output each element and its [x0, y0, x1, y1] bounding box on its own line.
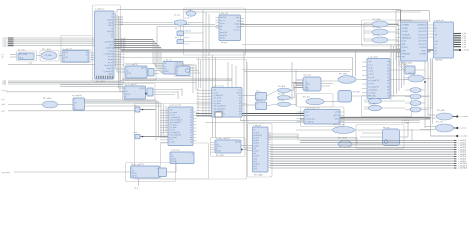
svg-text:u_bit_cnt: u_bit_cnt: [164, 59, 172, 62]
svg-text:oa: oa: [387, 93, 389, 95]
svg-text:r_state[2:0]: r_state[2:0]: [368, 88, 378, 91]
svg-text:i_d1: i_d1: [0, 111, 4, 113]
svg-text:s3: s3: [197, 98, 199, 100]
svg-text:u_uart_tx_inst: u_uart_tx_inst: [212, 84, 224, 87]
svg-text:o_d6: o_d6: [462, 46, 466, 48]
svg-text:u_clk_wiz_0: u_clk_wiz_0: [401, 20, 411, 22]
svg-text:Q[7:0]: Q[7:0]: [216, 151, 221, 153]
svg-text:Q[7:0]: Q[7:0]: [235, 142, 240, 144]
svg-text:r_cnt[11:0]: r_cnt[11:0]: [305, 121, 314, 124]
svg-text:RTL_REG: RTL_REG: [216, 155, 224, 157]
svg-text:DI[15:0]: DI[15:0]: [402, 47, 409, 49]
svg-text:o6: o6: [387, 80, 389, 82]
svg-text:tick_reg: tick_reg: [383, 126, 389, 129]
svg-text:pr13: pr13: [254, 165, 257, 168]
svg-text:o_led4[3:0]: o_led4[3:0]: [458, 149, 467, 151]
svg-text:CLKOUT4: CLKOUT4: [418, 41, 426, 43]
svg-text:o_tx_done: o_tx_done: [212, 102, 220, 105]
svg-text:DADDR[6:0]: DADDR[6:0]: [402, 37, 412, 40]
svg-text:i_en: i_en: [0, 99, 4, 101]
svg-text:o2: o2: [387, 67, 389, 69]
svg-text:D1: D1: [435, 47, 437, 49]
svg-text:RTL_ROM: RTL_ROM: [338, 138, 347, 140]
svg-text:Q[7:0]: Q[7:0]: [171, 161, 176, 163]
svg-text:s7: s7: [197, 110, 199, 112]
svg-text:do3: do3: [121, 24, 124, 26]
svg-text:o_tx_serial: o_tx_serial: [212, 99, 221, 102]
svg-text:o_tx_active: o_tx_active: [212, 97, 221, 100]
svg-text:o5: o5: [387, 77, 389, 79]
svg-text:RTL_ROM: RTL_ROM: [19, 54, 28, 56]
svg-text:RTL_EQ: RTL_EQ: [278, 100, 285, 102]
svg-text:i_mosi: i_mosi: [367, 71, 373, 73]
svg-text:tx_sr_reg[7:0]: tx_sr_reg[7:0]: [125, 83, 137, 86]
svg-text:Q[7:0]: Q[7:0]: [140, 88, 145, 90]
svg-text:RTL_AND: RTL_AND: [373, 26, 381, 29]
svg-text:o_led5[3:0]: o_led5[3:0]: [458, 152, 467, 154]
svg-text:RTL_OR: RTL_OR: [436, 122, 443, 124]
svg-text:i_tx_dv: i_tx_dv: [367, 82, 373, 85]
svg-text:o7: o7: [387, 83, 389, 85]
svg-text:RTL_ADD: RTL_ADD: [43, 97, 52, 100]
svg-text:D[2:0]: D[2:0]: [306, 84, 311, 86]
svg-text:tx_data_reg[7:0]: tx_data_reg[7:0]: [216, 137, 230, 140]
svg-text:d_o[3]: d_o[3]: [121, 44, 126, 46]
svg-text:cnt_reg[3:0]: cnt_reg[3:0]: [72, 94, 82, 97]
svg-text:dout: dout: [236, 16, 240, 19]
svg-text:CLKOUT1: CLKOUT1: [418, 31, 426, 33]
svg-text:u_uart_rx_inst: u_uart_rx_inst: [169, 104, 181, 107]
svg-text:RTL_REG: RTL_REG: [96, 81, 105, 83]
svg-text:d0_rom_i: d0_rom_i: [18, 48, 26, 51]
svg-text:RTL_REG: RTL_REG: [353, 92, 361, 94]
svg-text:state_reg: state_reg: [303, 74, 311, 77]
svg-text:CLKIN2: CLKIN2: [402, 31, 408, 33]
svg-text:dout[15:0]: dout[15:0]: [105, 41, 114, 44]
svg-text:probe7: probe7: [254, 150, 259, 153]
svg-text:s4: s4: [197, 101, 199, 103]
svg-text:o_led8[3:0]: o_led8[3:0]: [458, 159, 467, 161]
svg-text:q1: q1: [123, 51, 125, 53]
svg-text:pr6: pr6: [254, 147, 257, 150]
svg-text:a[7:0]: a[7:0]: [108, 22, 113, 24]
svg-text:probe4: probe4: [254, 142, 259, 145]
svg-text:rd_en: rd_en: [220, 23, 225, 25]
svg-text:D[7:0]: D[7:0]: [125, 94, 130, 96]
svg-text:q4: q4: [123, 59, 125, 61]
svg-text:q6: q6: [239, 114, 241, 116]
svg-text:q[3:0]: q[3:0]: [164, 71, 169, 73]
svg-text:empty: empty: [108, 73, 113, 76]
svg-text:CLKFBIN: CLKFBIN: [402, 25, 410, 27]
svg-text:o_locked: o_locked: [462, 50, 469, 52]
svg-text:PWRDWN: PWRDWN: [402, 54, 411, 56]
svg-text:r_bit_index[2:0]: r_bit_index[2:0]: [212, 107, 225, 110]
svg-text:r_cnt[2:0]: r_cnt[2:0]: [368, 92, 376, 95]
svg-text:o_led10[3:0]: o_led10[3:0]: [458, 163, 468, 165]
svg-text:S0: S0: [435, 50, 437, 52]
svg-text:mem_reg_rom: mem_reg_rom: [333, 124, 345, 126]
svg-text:I0: I0: [111, 14, 113, 16]
svg-text:din[7:0]: din[7:0]: [107, 68, 114, 70]
svg-text:CLKOUT3: CLKOUT3: [418, 38, 426, 40]
svg-text:RTL_INV: RTL_INV: [185, 10, 193, 12]
svg-text:inv_o: inv_o: [134, 188, 138, 190]
svg-text:pr8: pr8: [254, 152, 257, 155]
svg-text:b[7:0]: b[7:0]: [108, 25, 113, 27]
svg-text:DO[15:0]: DO[15:0]: [419, 47, 427, 49]
svg-text:o_rx_byte[7:0]: o_rx_byte[7:0]: [368, 79, 380, 82]
svg-text:o_led11[3:0]: o_led11[3:0]: [458, 165, 468, 167]
svg-text:probe2: probe2: [254, 137, 259, 140]
svg-text:rx_sr_reg[7:0]: rx_sr_reg[7:0]: [126, 63, 138, 66]
svg-text:o_led2[3:0]: o_led2[3:0]: [458, 145, 467, 147]
svg-text:i_spi_miso: i_spi_miso: [0, 172, 10, 174]
svg-text:o_rx_dv: o_rx_dv: [368, 76, 374, 79]
svg-text:ce: ce: [111, 28, 113, 30]
svg-text:spi_in_reg[7:0]: spi_in_reg[7:0]: [131, 163, 144, 166]
svg-text:o9: o9: [387, 89, 389, 91]
svg-text:d_o[4]: d_o[4]: [121, 46, 126, 48]
svg-text:probe0: probe0: [254, 131, 259, 134]
svg-text:mux_i: mux_i: [256, 91, 261, 93]
svg-text:probe5: probe5: [254, 144, 259, 147]
svg-text:clk: clk: [111, 34, 113, 36]
svg-text:LOCKED: LOCKED: [419, 54, 427, 56]
svg-text:probe12: probe12: [254, 163, 260, 166]
svg-text:s5: s5: [197, 104, 199, 106]
svg-text:d_o[0]: d_o[0]: [121, 38, 126, 40]
svg-text:o[3:0]: o[3:0]: [19, 58, 24, 60]
svg-text:do0: do0: [121, 17, 124, 19]
svg-text:din[7:0]: din[7:0]: [220, 17, 226, 19]
svg-text:CLKINSEL: CLKINSEL: [402, 34, 410, 36]
svg-text:probe1[7:0]: probe1[7:0]: [254, 134, 263, 137]
svg-text:rd_clk: rd_clk: [185, 24, 190, 26]
svg-text:sel[2:0]: sel[2:0]: [107, 19, 114, 21]
svg-text:o_led12[3:0]: o_led12[3:0]: [458, 168, 468, 170]
svg-text:empty: empty: [235, 22, 240, 25]
svg-text:pr14: pr14: [254, 168, 257, 171]
svg-text:u_iobuf_in: u_iobuf_in: [95, 9, 104, 11]
svg-text:s0: s0: [197, 89, 199, 91]
svg-text:o_uart_tx: o_uart_tx: [459, 127, 466, 130]
svg-text:RTL_EQ: RTL_EQ: [303, 97, 310, 99]
svg-text:i_ss_n: i_ss_n: [367, 64, 373, 66]
svg-text:i_clk: i_clk: [27, 63, 31, 65]
svg-text:RTL_AND: RTL_AND: [437, 109, 445, 112]
svg-text:i_clk: i_clk: [367, 61, 371, 63]
svg-text:empty: empty: [108, 58, 113, 61]
svg-text:i_clk: i_clk: [304, 112, 308, 114]
svg-text:d_o[2]: d_o[2]: [121, 42, 126, 44]
svg-text:q2: q2: [123, 54, 125, 56]
svg-text:o_tick: o_tick: [334, 111, 339, 114]
svg-text:x: x: [87, 60, 88, 62]
svg-text:o_tx_done: o_tx_done: [459, 135, 467, 138]
svg-text:i_rst_n: i_rst_n: [0, 89, 6, 92]
svg-text:s8: s8: [197, 112, 199, 114]
svg-text:c[3:0]: c[3:0]: [335, 118, 340, 120]
svg-text:u_obuf_out: u_obuf_out: [434, 19, 444, 22]
svg-text:o3: o3: [387, 71, 389, 73]
svg-text:CLKIN1: CLKIN1: [402, 28, 408, 30]
svg-text:u_baud_gen_inst: u_baud_gen_inst: [305, 106, 320, 109]
svg-text:o_led9[3:0]: o_led9[3:0]: [458, 161, 467, 163]
svg-text:CLKOUT2: CLKOUT2: [418, 34, 426, 36]
svg-text:probe3: probe3: [254, 139, 259, 142]
svg-text:wr_en: wr_en: [108, 61, 113, 64]
svg-text:I1: I1: [111, 17, 113, 19]
svg-text:o_tx: o_tx: [238, 89, 241, 92]
svg-text:sel_mux: sel_mux: [174, 15, 180, 17]
svg-text:CLKOUT5: CLKOUT5: [418, 44, 426, 46]
svg-text:o_baud_tick: o_baud_tick: [305, 117, 315, 120]
svg-text:pr11: pr11: [254, 160, 257, 163]
svg-text:OBUFDS: OBUFDS: [435, 59, 443, 61]
svg-text:pr10: pr10: [254, 157, 257, 160]
svg-text:o_state: o_state: [169, 141, 175, 144]
svg-text:DRDY: DRDY: [422, 50, 428, 52]
svg-text:rd_en: rd_en: [185, 37, 190, 39]
svg-text:q5: q5: [123, 62, 125, 64]
svg-text:o_led1[3:0]: o_led1[3:0]: [458, 142, 467, 144]
svg-text:out_sel_i: out_sel_i: [176, 62, 183, 65]
svg-text:RTL_EQ: RTL_EQ: [409, 73, 416, 75]
svg-text:fifo_gen: fifo_gen: [221, 42, 227, 44]
svg-text:wr_en: wr_en: [185, 44, 190, 46]
svg-text:o4: o4: [387, 74, 389, 76]
svg-text:d[15:0]: d[15:0]: [107, 31, 113, 33]
svg-text:s2: s2: [197, 95, 199, 97]
svg-text:u_spi_slave: u_spi_slave: [368, 56, 378, 58]
svg-text:ob: ob: [387, 96, 389, 98]
svg-text:do1: do1: [121, 19, 124, 21]
svg-text:empty: empty: [220, 37, 225, 40]
svg-text:RTL_OR: RTL_OR: [369, 103, 376, 105]
svg-text:S1: S1: [435, 54, 437, 56]
svg-text:CLKFBOUT: CLKFBOUT: [417, 25, 427, 27]
svg-text:clk: clk: [220, 26, 222, 28]
svg-text:i_tx_byte[7:0]: i_tx_byte[7:0]: [367, 85, 379, 88]
svg-text:i_tx_byte[7:0]: i_tx_byte[7:0]: [212, 94, 224, 97]
svg-text:wr_ack: wr_ack: [234, 30, 240, 32]
svg-text:dout[15:0]: dout[15:0]: [105, 64, 114, 67]
svg-text:I0: I0: [257, 104, 258, 106]
svg-text:RTL_MUX: RTL_MUX: [42, 49, 52, 51]
svg-text:i_cfg: i_cfg: [1, 84, 5, 86]
svg-text:a_data[7:0]: a_data[7:0]: [104, 70, 114, 73]
svg-text:addr[9:0]: addr[9:0]: [106, 47, 114, 50]
svg-text:RTL_MUX: RTL_MUX: [339, 74, 348, 76]
svg-text:o0: o0: [387, 61, 389, 63]
svg-text:o_led3[3:0]: o_led3[3:0]: [458, 147, 467, 149]
svg-text:i_ad_4: i_ad_4: [1, 45, 7, 47]
svg-text:u_fifo_ctrl: u_fifo_ctrl: [219, 12, 228, 15]
svg-text:probe9: probe9: [254, 155, 259, 158]
svg-text:o1: o1: [387, 64, 389, 66]
svg-text:prog_full: prog_full: [220, 32, 227, 34]
svg-text:rx_dv_reg: rx_dv_reg: [171, 149, 179, 152]
svg-text:clk_i: clk_i: [109, 45, 113, 47]
svg-text:q[11:0]: q[11:0]: [334, 115, 340, 117]
svg-text:dout[7:0]: dout[7:0]: [220, 34, 227, 37]
svg-text:a_data[7:0]: a_data[7:0]: [104, 52, 114, 55]
svg-text:wr_en: wr_en: [220, 20, 225, 22]
svg-text:u_sync_ff: u_sync_ff: [63, 49, 72, 51]
svg-text:and_i: and_i: [134, 132, 139, 134]
svg-text:buf_o: buf_o: [175, 37, 179, 39]
svg-text:RTL_AND: RTL_AND: [373, 18, 381, 21]
svg-text:CLKOUT0: CLKOUT0: [418, 28, 426, 30]
svg-text:o8: o8: [387, 86, 389, 88]
svg-text:o_led6[3:0]: o_led6[3:0]: [458, 154, 467, 156]
svg-text:s_axis: s_axis: [108, 50, 113, 52]
svg-text:d_o[1]: d_o[1]: [121, 40, 126, 42]
svg-text:i_rst: i_rst: [304, 114, 308, 117]
svg-text:u_dbg_ila: u_dbg_ila: [253, 125, 262, 127]
svg-text:o_tx_active: o_tx_active: [459, 115, 468, 118]
svg-text:i_sclk: i_sclk: [367, 67, 372, 69]
svg-text:o_led7[3:0]: o_led7[3:0]: [458, 156, 467, 158]
svg-text:i_tx_dv: i_tx_dv: [212, 91, 218, 94]
svg-text:I1: I1: [177, 71, 178, 73]
svg-text:Q[7:0]: Q[7:0]: [141, 68, 146, 70]
svg-text:o_led0[3:0]: o_led0[3:0]: [458, 140, 467, 142]
svg-text:I0: I0: [257, 94, 258, 96]
svg-text:I0: I0: [177, 68, 178, 70]
svg-text:din[7:0]: din[7:0]: [185, 31, 191, 33]
svg-text:RTL_OR: RTL_OR: [373, 35, 380, 37]
svg-text:CE: CE: [306, 82, 308, 84]
svg-text:q3: q3: [123, 57, 125, 59]
svg-text:s9: s9: [197, 115, 199, 117]
svg-text:RTL_RAM: RTL_RAM: [254, 174, 263, 177]
svg-text:i_d0: i_d0: [0, 104, 4, 106]
svg-text:mux_i_0: mux_i_0: [256, 100, 262, 102]
svg-text:Q[7:0]: Q[7:0]: [132, 176, 137, 178]
svg-text:D0: D0: [435, 44, 437, 46]
svg-text:wr_en: wr_en: [108, 55, 113, 58]
svg-text:s1: s1: [197, 92, 199, 94]
svg-text:o_miso: o_miso: [368, 74, 374, 76]
svg-text:S: S: [177, 74, 178, 76]
svg-text:q0: q0: [123, 49, 125, 51]
svg-text:od: od: [190, 142, 192, 144]
svg-text:wr_clk: wr_clk: [185, 18, 190, 20]
svg-text:i_b: i_b: [0, 57, 3, 59]
svg-text:q6: q6: [123, 64, 125, 66]
svg-text:valid: valid: [236, 27, 240, 29]
svg-text:en: en: [63, 60, 65, 62]
svg-text:r_clk_count[11:0]: r_clk_count[11:0]: [212, 105, 226, 108]
svg-text:s6: s6: [197, 107, 199, 109]
